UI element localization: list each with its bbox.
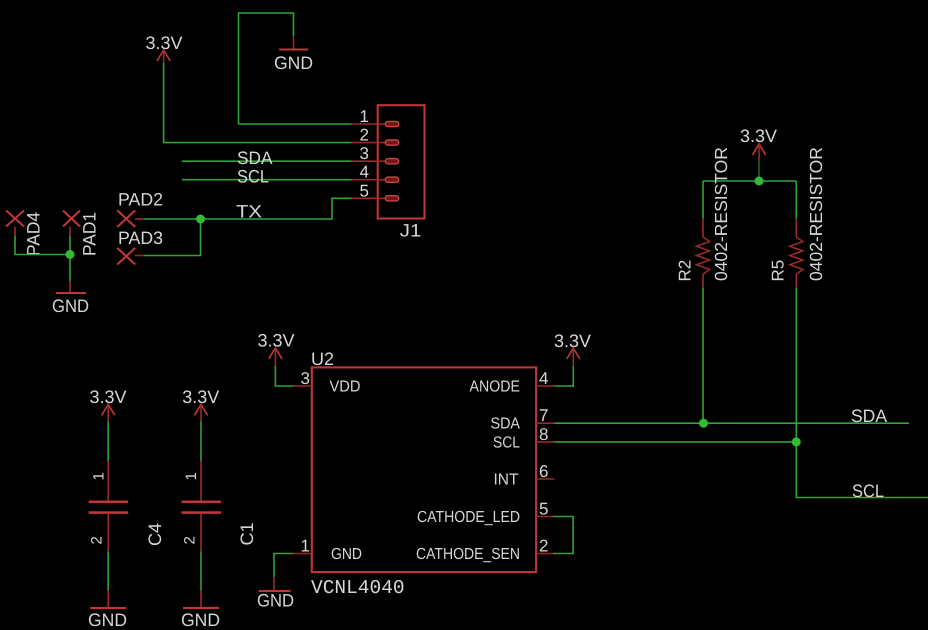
supply 3.3V (C1) [182, 387, 219, 422]
svg-text:VCNL4040: VCNL4040 [311, 577, 405, 599]
svg-text:GND: GND [52, 296, 89, 316]
pin 8 SCL [536, 441, 554, 443]
svg-text:CATHODE_SEN: CATHODE_SEN [416, 546, 520, 563]
wire 3V3 to VDD [275, 366, 293, 386]
svg-text:2: 2 [360, 126, 369, 145]
svg-text:4: 4 [360, 163, 369, 182]
wire 3V3 to C4 pin 1 [107, 422, 109, 462]
svg-text:1: 1 [183, 472, 200, 480]
svg-text:SDA: SDA [237, 148, 273, 168]
wire C4 pin 2 to GND [107, 552, 109, 591]
ground (below pads) [52, 281, 89, 316]
supply 3.3V (top left) [145, 33, 182, 63]
IC U2 [294, 349, 555, 599]
svg-text:1: 1 [301, 537, 310, 556]
svg-text:SCL: SCL [237, 167, 269, 187]
pin 3 [352, 160, 386, 162]
svg-text:7: 7 [539, 406, 548, 425]
pin 6 INT [536, 478, 554, 480]
svg-text:GND: GND [331, 546, 362, 563]
svg-text:R5: R5 [769, 260, 788, 282]
svg-text:GND: GND [257, 591, 294, 611]
ground (U2) [257, 577, 294, 611]
svg-text:PAD2: PAD2 [118, 189, 163, 209]
capacitor C1 [181, 461, 257, 552]
supply 3.3V (U2 VDD) [257, 331, 294, 367]
ground (C1) [181, 591, 220, 630]
wire CATHODE_LED to CATHODE_SEN [553, 517, 573, 554]
pin 4 ANODE [536, 385, 554, 387]
wire net SCL (right) [555, 442, 885, 501]
svg-text:INT: INT [494, 472, 519, 489]
supply 3.3V (resistors) [740, 126, 777, 160]
pad PAD2 [117, 189, 163, 227]
wire 3V3 to C1 pin 1 [200, 422, 202, 462]
wire net PAD-GND [15, 236, 70, 281]
svg-text:3: 3 [360, 144, 369, 163]
svg-text:2: 2 [89, 536, 106, 544]
svg-text:GND: GND [88, 610, 127, 630]
svg-text:2: 2 [181, 536, 198, 544]
junction 3V3 rail [755, 177, 764, 186]
svg-text:1: 1 [90, 472, 107, 480]
pin 7 SDA [536, 422, 554, 424]
pin 5 [352, 197, 386, 199]
pad PAD3 [117, 228, 163, 265]
svg-text:TX: TX [236, 202, 262, 222]
junction PAD-GND [66, 250, 75, 259]
svg-text:SCL: SCL [852, 481, 884, 501]
svg-text:J1: J1 [400, 221, 422, 241]
svg-text:5: 5 [539, 500, 548, 519]
wire net 3V3 to J1 pin2 [164, 63, 352, 143]
wire R2 to SDA [702, 288, 704, 423]
pin 1 [352, 123, 386, 125]
ground (C4) [88, 591, 127, 630]
wire R5 to SCL [796, 288, 928, 498]
node SCL stub to J1 pin4 [182, 167, 352, 187]
svg-text:PAD1: PAD1 [80, 212, 100, 256]
svg-text:0402-RESISTOR: 0402-RESISTOR [806, 147, 826, 281]
svg-text:6: 6 [539, 462, 548, 481]
svg-text:U2: U2 [311, 349, 334, 369]
svg-text:5: 5 [360, 181, 369, 200]
svg-text:PAD3: PAD3 [118, 228, 163, 248]
svg-text:SCL: SCL [493, 434, 520, 451]
pin 5 CATHODE_LED [536, 516, 553, 518]
resistor R5 [769, 147, 827, 288]
svg-text:R2: R2 [676, 260, 695, 282]
supply 3.3V (U2 ANODE) [554, 331, 591, 366]
node SDA stub to J1 pin3 [182, 148, 352, 168]
svg-text:SDA: SDA [491, 416, 521, 433]
svg-text:VDD: VDD [330, 379, 361, 396]
svg-text:2: 2 [539, 537, 548, 556]
wire to J1 pin1 [239, 123, 352, 125]
svg-text:SDA: SDA [851, 406, 887, 426]
pin 3 VDD [294, 385, 312, 387]
supply 3.3V (C4) [89, 387, 126, 422]
svg-text:3: 3 [301, 369, 310, 388]
svg-text:C4: C4 [145, 523, 165, 546]
svg-text:GND: GND [274, 53, 313, 73]
svg-text:1: 1 [360, 107, 369, 126]
wire 3V3 to ANODE [555, 366, 574, 386]
wire 3V3 rail to resistors [703, 160, 796, 219]
pad PAD4 [6, 211, 44, 257]
svg-text:ANODE: ANODE [470, 379, 521, 396]
pin 4 [352, 179, 386, 181]
wire net SDA (right) [555, 406, 910, 426]
pin 2 CATHODE_SEN [536, 553, 553, 555]
pin 2 [352, 142, 386, 144]
svg-text:CATHODE_LED: CATHODE_LED [417, 509, 520, 526]
svg-text:GND: GND [181, 610, 220, 630]
pin 1 GND [294, 553, 312, 555]
svg-text:C1: C1 [237, 522, 257, 545]
junction SDA/R2 [699, 419, 708, 428]
junction TX [196, 215, 205, 224]
wire C1 pin 2 to GND [200, 552, 202, 591]
ground (top) [274, 36, 313, 73]
svg-text:8: 8 [539, 425, 548, 444]
wire net GND top [239, 13, 294, 124]
junction SCL/R5 [792, 437, 801, 446]
wire U2 GND pin [274, 554, 294, 578]
connector J1 [352, 105, 425, 240]
pad PAD1 [63, 211, 100, 257]
wire net TX [144, 198, 352, 255]
capacitor C4 [89, 461, 166, 552]
svg-text:0402-RESISTOR: 0402-RESISTOR [711, 147, 731, 281]
svg-text:4: 4 [539, 369, 548, 388]
svg-text:3.3V: 3.3V [740, 126, 777, 146]
resistor R2 [676, 147, 732, 288]
svg-text:PAD4: PAD4 [24, 212, 44, 256]
